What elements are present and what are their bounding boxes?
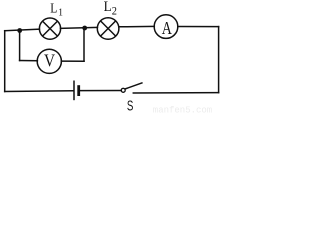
svg-text:A: A: [162, 20, 172, 39]
wire: voltmeter branch left horizontal: [20, 60, 38, 62]
voltmeter U: V: [37, 49, 61, 73]
wire: voltmeter branch vertical to node B: [83, 28, 85, 61]
wire: left vertical side: [4, 31, 6, 92]
battery: long plate (+): [73, 81, 75, 101]
node A (junction dot left): [17, 28, 22, 33]
battery: short thick plate (-): [77, 85, 80, 96]
wire: between L1 and L2: [61, 27, 98, 28]
wire: right vertical side: [218, 27, 220, 93]
switch S: lever: [125, 83, 143, 89]
svg-text:manfen5.com: manfen5.com: [153, 106, 212, 114]
lamp L1: [39, 18, 60, 39]
svg-text:2: 2: [112, 5, 117, 18]
node B (junction dot right of L1): [82, 26, 87, 31]
wire: top-left horizontal (corner to L1): [5, 29, 40, 31]
wire: battery to bottom-left corner: [5, 90, 74, 93]
wire: bottom right (corner to switch): [133, 92, 218, 94]
switch S: pivot circle: [121, 88, 125, 92]
ammeter U: A: [154, 15, 178, 39]
lamp L2: [97, 18, 119, 40]
wire: switch to battery: [80, 90, 121, 92]
svg-text:L: L: [50, 1, 57, 16]
wire: voltmeter branch right horizontal: [61, 60, 84, 62]
svg-text:1: 1: [58, 7, 63, 19]
wire: between L2 and ammeter: [119, 25, 154, 27]
svg-text:V: V: [44, 51, 55, 71]
wire: voltmeter branch vertical from node A: [19, 31, 21, 61]
svg-text:L: L: [104, 0, 112, 15]
wire: ammeter to top-right corner: [178, 26, 219, 28]
svg-text:S: S: [127, 98, 133, 114]
